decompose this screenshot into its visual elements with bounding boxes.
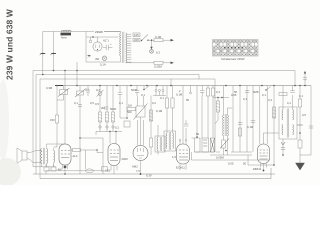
- svg-text:1M: 1M: [128, 104, 133, 108]
- svg-text:220: 220: [134, 38, 139, 42]
- power transformer primary winding: [104, 32, 121, 63]
- text under switch: [196, 132, 224, 160]
- ECH grid cap: [184, 120, 188, 140]
- AGC resistor chain: [297, 86, 304, 149]
- transformer core: [123, 32, 124, 63]
- IF1 feed resistors: [165, 86, 174, 134]
- cathode resistor R left: [50, 115, 59, 147]
- ground symbol: [296, 148, 305, 170]
- IF2 top feed: [279, 86, 303, 110]
- svg-text:125: 125: [134, 33, 139, 37]
- bus A: [36, 74, 199, 76]
- svg-text:Netz: Netz: [61, 36, 67, 40]
- svg-text:AL4: AL4: [73, 154, 78, 158]
- svg-text:AM2: AM2: [132, 165, 138, 169]
- speaker hum coil: [54, 148, 55, 166]
- lower feed line with resistor: [127, 61, 174, 68]
- svg-text:0,1: 0,1: [299, 94, 303, 98]
- mid rail with fuse: [46, 169, 103, 175]
- svg-text:0,1: 0,1: [287, 101, 291, 105]
- rectifier tube: [93, 37, 109, 51]
- heater tap junction: [150, 39, 161, 54]
- svg-text:0,3: 0,3: [216, 90, 220, 94]
- voltage selector blocks: [133, 33, 140, 42]
- ECH mixer tube: [172, 86, 190, 171]
- detector chain x283: [281, 139, 285, 156]
- small cap component in PSU: [89, 37, 92, 43]
- junction dots on rails: [42, 70, 301, 87]
- AF chain 4 with cap: [118, 86, 130, 128]
- svg-text:0,05: 0,05: [228, 162, 234, 166]
- svg-text:0,5: 0,5: [95, 102, 99, 106]
- svg-text:0,25M: 0,25M: [154, 65, 162, 69]
- bus jog: [170, 79, 172, 86]
- small IF coil mid: [155, 125, 165, 155]
- bottom rail 2: [40, 168, 271, 179]
- AF coupling chain 1: [90, 86, 104, 132]
- PSU drop wire: [76, 62, 78, 86]
- svg-text:5000: 5000: [131, 88, 138, 92]
- output tube AL4: [59, 71, 78, 170]
- power unit box: [86, 30, 120, 62]
- oscillator padder: [210, 139, 252, 156]
- antenna terminal right: [303, 71, 307, 86]
- svg-text:0,1: 0,1: [243, 97, 247, 101]
- fuse on v2: [50, 53, 56, 55]
- PSU lower parts: resistor hatch: [87, 55, 91, 58]
- volume pot left: [46, 86, 70, 116]
- mid verticals right of osc: [231, 86, 252, 153]
- secondary taps: [126, 34, 132, 62]
- svg-text:50: 50: [243, 162, 247, 166]
- svg-text:0,2: 0,2: [115, 126, 119, 130]
- magic eye tube circle: [132, 117, 148, 175]
- svg-text:0,1M: 0,1M: [155, 35, 162, 39]
- svg-text:0,1A: 0,1A: [100, 63, 106, 67]
- svg-text:0,3M: 0,3M: [46, 86, 53, 90]
- wire vertical v1: [42, 32, 44, 75]
- EBF tube: [247, 86, 270, 172]
- coupling cap 5000: [104, 107, 117, 111]
- IF transformer 2: [279, 107, 297, 139]
- wire vertical v2: [53, 32, 55, 71]
- bus B: [40, 78, 215, 80]
- detector wiring: [248, 86, 279, 166]
- svg-text:0,05M: 0,05M: [216, 156, 224, 160]
- svg-text:1,5: 1,5: [172, 155, 176, 159]
- svg-text:+: +: [110, 42, 112, 46]
- svg-text:50: 50: [234, 90, 238, 94]
- right edge vertical: [300, 86, 313, 156]
- svg-text:EBF11: EBF11: [253, 167, 262, 171]
- main bus C: [55, 85, 311, 87]
- svg-text:6,3: 6,3: [156, 51, 160, 55]
- svg-text:0,1: 0,1: [74, 101, 78, 105]
- svg-text:2000: 2000: [122, 157, 129, 161]
- svg-text:6M8: 6M8: [253, 90, 259, 94]
- extra small parts row: [86, 86, 271, 97]
- top rail lineP: [33, 70, 295, 72]
- AGC resistor x274: [272, 107, 275, 118]
- AF chain 2: [101, 86, 109, 132]
- value labels row: [85, 88, 291, 107]
- svg-text:0,1M: 0,1M: [176, 93, 183, 97]
- table caption: [221, 57, 245, 61]
- fuse on v1: [40, 53, 46, 55]
- wire return rail mid: [192, 152, 271, 166]
- svg-text:0,5: 0,5: [90, 101, 94, 105]
- svg-text:50: 50: [196, 132, 200, 136]
- tube socket table: [213, 40, 259, 57]
- switch cluster under bus: [153, 86, 166, 96]
- band switch box group: [192, 138, 221, 152]
- svg-text:0,1: 0,1: [119, 101, 123, 105]
- svg-text:500: 500: [127, 110, 132, 114]
- svg-text:50: 50: [186, 98, 190, 102]
- oscillator coil: [223, 86, 233, 156]
- dial lamp: [95, 56, 107, 67]
- AF chain 3: [111, 86, 114, 132]
- svg-text:0,1M: 0,1M: [156, 109, 163, 113]
- misc bottom text: [146, 174, 152, 178]
- svg-text:AZ 1: AZ 1: [103, 39, 109, 43]
- mains line top: [43, 31, 86, 33]
- svg-text:0,1: 0,1: [160, 96, 164, 100]
- loudspeaker: [17, 148, 42, 164]
- svg-text:0,5: 0,5: [302, 113, 306, 117]
- mains choke coil: [61, 30, 72, 40]
- under-bus parts left of eye: [135, 86, 149, 97]
- B+ feed line with resistor: [148, 35, 174, 42]
- svg-text:0,1: 0,1: [141, 93, 145, 97]
- bottom rail 1: [33, 173, 275, 175]
- svg-text:0,2: 0,2: [152, 101, 156, 105]
- speaker field terminals: [40, 164, 62, 171]
- bus corners right: [199, 71, 295, 153]
- svg-text:AB2: AB2: [105, 169, 111, 173]
- svg-text:6,3V: 6,3V: [146, 174, 152, 178]
- resistor 1M horizontal: [127, 104, 136, 111]
- selector switch arm: [141, 35, 149, 42]
- screen pot: [74, 86, 86, 175]
- svg-text:0,1: 0,1: [262, 93, 266, 97]
- osc grid line: [213, 97, 229, 124]
- svg-text:4W: 4W: [95, 57, 100, 61]
- IF transformer 1: [164, 131, 176, 151]
- svg-text:239W: 239W: [95, 30, 103, 34]
- svg-text:Schaltersatz 239W: Schaltersatz 239W: [221, 57, 245, 61]
- decoupling vertical x253: [251, 86, 255, 153]
- svg-text:5000: 5000: [110, 107, 117, 111]
- title 239 W und 638 W: [5, 8, 15, 80]
- output transformer: [41, 144, 65, 167]
- svg-text:239 W und 638 W: 239 W und 638 W: [5, 8, 15, 80]
- table marks: [213, 40, 257, 55]
- svg-text:0,1: 0,1: [85, 88, 89, 92]
- electrolytic capacitor in PSU: [103, 42, 112, 50]
- svg-text:0,2: 0,2: [96, 88, 100, 92]
- svg-text:7,5: 7,5: [136, 169, 140, 173]
- band switch feeds: [196, 86, 214, 139]
- AL4 anode resistor: [71, 149, 103, 170]
- inner wire of power unit: [86, 36, 118, 38]
- svg-text:0,3: 0,3: [268, 98, 272, 102]
- svg-text:0,1M: 0,1M: [247, 125, 254, 129]
- svg-text:ECH11: ECH11: [176, 166, 185, 170]
- left frame verticals: [33, 71, 40, 179]
- power transformer secondary winding: [126, 33, 127, 63]
- tuning cap for eye: [127, 96, 148, 120]
- svg-text:150: 150: [50, 118, 55, 122]
- grid bus above AF tube: [96, 126, 122, 144]
- resistor left of IF coil: [149, 96, 162, 156]
- svg-text:2M: 2M: [101, 106, 106, 110]
- AF tube capsule: [79, 137, 128, 174]
- scan smudge: [0, 80, 21, 186]
